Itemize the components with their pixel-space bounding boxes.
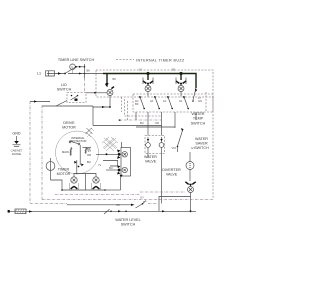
- svg-text:DRIVE: DRIVE: [63, 121, 75, 125]
- svg-text:MOTOR: MOTOR: [57, 172, 71, 176]
- svg-text:SWITCH: SWITCH: [194, 146, 209, 150]
- svg-text:DIVERTER: DIVERTER: [162, 168, 181, 172]
- svg-text:PROTECTOR: PROTECTOR: [70, 139, 87, 143]
- svg-text:BU: BU: [87, 160, 91, 164]
- svg-text:INTERNAL TIMER BUZZ: INTERNAL TIMER BUZZ: [136, 59, 185, 63]
- svg-text:VALVE: VALVE: [145, 160, 157, 164]
- svg-text:GY: GY: [140, 196, 144, 200]
- svg-text:WATER: WATER: [144, 155, 157, 159]
- svg-text:TIMER LINE SWITCH: TIMER LINE SWITCH: [58, 58, 95, 62]
- svg-text:MAIN: MAIN: [62, 150, 69, 154]
- svg-text:2B: 2B: [172, 68, 175, 72]
- svg-text:L1: L1: [37, 72, 41, 76]
- svg-text:OR: OR: [155, 121, 159, 125]
- svg-text:SWITCH: SWITCH: [191, 121, 206, 125]
- svg-text:1A: 1A: [139, 68, 142, 72]
- svg-text:LID: LID: [61, 83, 67, 87]
- svg-text:OR: OR: [87, 153, 91, 157]
- svg-text:FRAME: FRAME: [12, 152, 22, 156]
- svg-text:GND: GND: [12, 132, 21, 136]
- svg-text:MOTOR: MOTOR: [62, 126, 76, 130]
- svg-text:GN: GN: [198, 99, 202, 103]
- svg-text:3A: 3A: [179, 99, 182, 103]
- svg-text:BU: BU: [140, 121, 144, 125]
- svg-text:BK: BK: [87, 69, 91, 73]
- svg-text:SWITCH: SWITCH: [121, 223, 136, 227]
- svg-text:BK: BK: [113, 77, 117, 81]
- svg-text:WATER: WATER: [192, 112, 205, 116]
- svg-text:TEMP: TEMP: [193, 117, 204, 121]
- svg-text:WATER LEVEL: WATER LEVEL: [115, 218, 140, 222]
- svg-text:YL: YL: [98, 163, 102, 167]
- svg-text:P2: P2: [117, 203, 121, 207]
- svg-text:CABINET: CABINET: [11, 149, 23, 153]
- svg-text:GY: GY: [191, 146, 195, 150]
- svg-text:4A: 4A: [150, 99, 153, 103]
- svg-text:BK: BK: [87, 147, 91, 151]
- svg-text:SAVER: SAVER: [195, 142, 208, 146]
- svg-text:WATER: WATER: [195, 137, 208, 141]
- svg-text:BK: BK: [135, 102, 139, 106]
- svg-text:SWITCH: SWITCH: [57, 88, 72, 92]
- svg-text:VIO: VIO: [172, 146, 177, 150]
- svg-text:BU: BU: [109, 166, 113, 170]
- svg-text:2A: 2A: [163, 99, 166, 103]
- svg-text:VALVE: VALVE: [166, 173, 178, 177]
